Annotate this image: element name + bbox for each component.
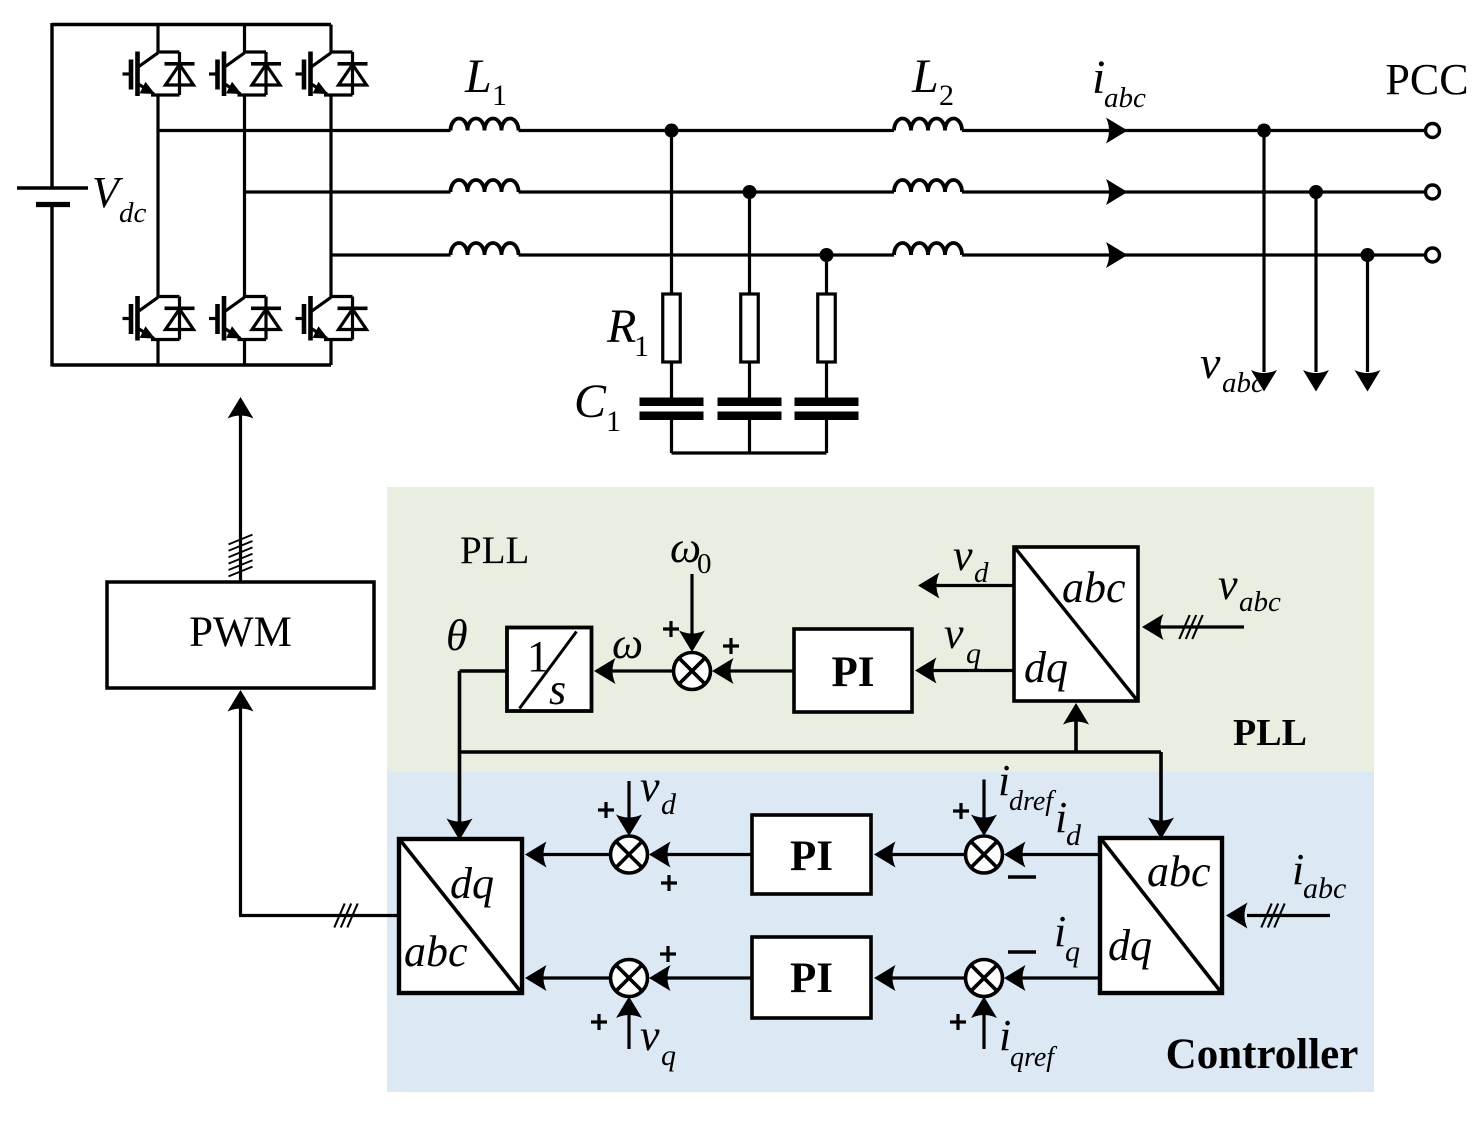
wire: phase leg a upper	[156, 25, 159, 53]
wire: phase leg c upper	[329, 25, 332, 53]
label C1	[574, 375, 621, 438]
wire: vabc sense lead phase a	[1262, 131, 1265, 373]
node: vabc sense junction phase b	[1309, 185, 1323, 199]
capacitor C1 phase b	[718, 398, 782, 421]
arrowhead vd into S2	[616, 815, 642, 837]
label iabc (line current)	[1092, 51, 1146, 114]
wire: phase leg a lower	[156, 339, 159, 365]
wire: S2 output to dq/abc	[528, 853, 612, 856]
wire: phase leg c middle	[329, 95, 332, 298]
resistor R1 phase c	[818, 294, 836, 362]
divider slash of 1/s	[520, 632, 577, 709]
wire: C1 to star point phase c	[825, 420, 828, 453]
arrowhead idref into S3	[971, 815, 997, 837]
transistor Q2 (upper IGBT with antiparallel diode)	[209, 52, 281, 97]
svg-text:dref: dref	[1009, 786, 1056, 817]
wire: idref into S3	[982, 780, 985, 823]
summing junction S5 (iq error)	[966, 960, 1003, 997]
wire: iabc arrow shaft	[1247, 914, 1250, 917]
arrowhead vabc sense phase b	[1303, 370, 1329, 392]
diagonal of dq/abc (controller)	[401, 841, 521, 992]
svg-text:abc: abc	[1147, 847, 1211, 896]
arrowhead PI-q output into S4	[649, 965, 671, 991]
arrowhead into PI-q	[874, 965, 896, 991]
svg-text:1: 1	[634, 330, 649, 363]
svg-text:q: q	[1065, 935, 1080, 968]
svg-text:s: s	[549, 665, 566, 714]
summing junction S4 (vq feed-forward)	[611, 960, 648, 997]
wire: phase leg c lower	[329, 339, 332, 365]
arrowhead omega0 into S1	[679, 631, 705, 653]
bus-width hash on gate signal wire	[229, 535, 253, 577]
sign + (PI-d into S2)	[661, 875, 677, 891]
label vd (feed-forward)	[640, 762, 677, 821]
sign - (iq into S5)	[1008, 950, 1036, 954]
label iq	[1054, 907, 1080, 968]
inductor L1 phase b	[451, 180, 519, 192]
sign + (vq into S4)	[591, 1014, 607, 1030]
svg-text:abc: abc	[1222, 367, 1264, 399]
arrowhead into PWM bottom	[228, 690, 254, 712]
inductor L1 phase c	[451, 243, 519, 255]
svg-text:1: 1	[606, 405, 621, 438]
wire: vabc input to PLL transform	[1146, 625, 1244, 628]
wire: PI-q output to S4	[652, 976, 752, 979]
label R1	[606, 300, 649, 363]
capacitor C1 phase c	[795, 398, 859, 421]
label iabc (controller input)	[1292, 845, 1346, 905]
wire: phase c line, L2 to PCC	[962, 253, 1426, 256]
wire: vq feed-forward into S4	[627, 1010, 630, 1049]
wire: S5 output to PI-q	[877, 976, 967, 979]
wire: vabc sense lead phase b	[1314, 192, 1317, 372]
wire: phase b line, L2 to PCC	[962, 190, 1426, 193]
summing junction S2 (vd feed-forward)	[611, 836, 648, 873]
svg-text:d: d	[661, 788, 677, 821]
wire: iqref into S5	[982, 1010, 985, 1049]
label vd (PLL)	[953, 531, 989, 589]
wire: C1 to star point phase a	[670, 420, 673, 453]
block abc/dq transform U-PLL	[1014, 547, 1138, 701]
wire: phase b shunt branch upper	[748, 192, 751, 294]
node: phase a filter tap junction	[665, 124, 679, 138]
svg-text:qref: qref	[1010, 1042, 1057, 1073]
node: vabc sense junction phase c	[1361, 248, 1375, 262]
node: vabc sense junction phase a	[1257, 124, 1271, 138]
svg-text:1: 1	[492, 79, 507, 112]
block PI current controller q-axis	[752, 937, 871, 1018]
wire: phase a line, L1 to L2	[519, 129, 895, 132]
capacitor C1 phase a	[640, 398, 704, 421]
arrowhead PI output into S1	[712, 658, 734, 684]
wire: omega0 into S1	[690, 574, 693, 637]
svg-text:d: d	[1066, 819, 1082, 852]
wire: phase c line, inverter to L1	[331, 253, 451, 256]
svg-text:q: q	[661, 1039, 676, 1072]
wire: phase a line, inverter to L1	[158, 129, 451, 132]
arrowhead vq into S4	[616, 997, 642, 1019]
svg-text:v: v	[1200, 337, 1221, 388]
wire: iq from abc/dq to S5	[1007, 976, 1100, 979]
wire: C1 to star point phase b	[748, 420, 751, 453]
label L2	[911, 50, 954, 112]
wire: theta distribution horizontal	[460, 750, 1162, 754]
arrowhead vabc sense phase c	[1355, 370, 1381, 392]
inductor L2 phase a	[894, 119, 962, 131]
svg-text:ω: ω	[612, 619, 643, 668]
svg-text:abc: abc	[1303, 872, 1346, 905]
svg-text:PCC: PCC	[1385, 55, 1468, 104]
bus-width hash on vabc input	[1179, 615, 1202, 639]
svg-text:q: q	[966, 637, 981, 670]
arrowhead into dq/abc q input	[525, 965, 547, 991]
wire: modulating signals dq/abc to PWM (horizontal)	[239, 914, 399, 917]
label vabc (PLL input)	[1218, 560, 1281, 618]
svg-text:abc: abc	[1104, 82, 1146, 114]
svg-text:L: L	[911, 50, 939, 103]
arrowhead into integrator	[594, 658, 616, 684]
label omega0	[670, 523, 712, 580]
bus-width hash on iabc input	[1261, 904, 1284, 928]
svg-text:dc: dc	[119, 197, 147, 229]
wire: phase leg b lower	[243, 339, 246, 365]
sign + (vd into S2)	[598, 802, 614, 818]
svg-text:v: v	[953, 531, 973, 580]
wire: phase leg b upper	[243, 25, 246, 53]
transistor Q6 (lower IGBT with antiparallel diode)	[296, 296, 368, 341]
label vabc (PCC voltage)	[1200, 337, 1264, 399]
resistor R1 phase b	[741, 294, 759, 362]
svg-text:θ: θ	[446, 611, 468, 660]
block PI current controller d-axis	[752, 815, 871, 894]
diagonal of abc/dq (PLL)	[1016, 549, 1137, 700]
arrowhead into PI-d	[874, 842, 896, 868]
svg-text:PLL: PLL	[460, 529, 529, 572]
wire: R1 to C1 phase c	[825, 362, 828, 398]
arrowhead iq into S5	[1004, 965, 1026, 991]
block dq/abc inverse transform U-ctl1	[399, 839, 522, 993]
inductor L2 phase b	[894, 180, 962, 192]
battery Vdc negative plate	[36, 202, 70, 207]
arrowhead vq into PI	[915, 658, 937, 684]
wire: PI-d output to S2	[652, 853, 752, 856]
terminal PCC phase a	[1426, 124, 1440, 138]
wire: theta vertical down to dq/abc	[458, 671, 462, 825]
arrowhead theta into dq/abc	[447, 819, 473, 841]
svg-text:dq: dq	[1024, 643, 1068, 692]
transistor Q3 (upper IGBT with antiparallel diode)	[296, 52, 368, 97]
sign - (id into S3)	[1008, 875, 1036, 879]
wire: S3 output to PI-d	[877, 853, 967, 856]
svg-text:dq: dq	[450, 859, 494, 908]
terminal PCC phase c	[1426, 248, 1440, 262]
transistor Q5 (lower IGBT with antiparallel diode)	[209, 296, 281, 341]
wire: phase leg b middle	[243, 95, 246, 298]
sign + (PI input to S1)	[723, 638, 739, 654]
wire: PI output to S1	[715, 669, 794, 672]
wire: vd feed-forward into S2	[627, 781, 630, 822]
inductor L2 phase c	[894, 243, 962, 255]
label L1	[464, 50, 507, 112]
svg-text:PI: PI	[790, 833, 833, 880]
sign + (iqref into S5)	[950, 1014, 966, 1030]
svg-text:0: 0	[697, 548, 712, 580]
diagonal of abc/dq (controller)	[1102, 840, 1221, 992]
terminal PCC phase b	[1426, 185, 1440, 199]
wire: DC bus bottom rail	[52, 363, 331, 366]
wire: phase a line, L2 to PCC	[962, 129, 1426, 132]
Controller region background	[387, 772, 1374, 1092]
svg-text:C: C	[574, 375, 607, 428]
wire: R1 to C1 phase a	[670, 362, 673, 398]
resistor R1 phase a	[663, 294, 681, 362]
svg-text:R: R	[606, 300, 636, 353]
svg-text:v: v	[944, 609, 964, 658]
wire: modulating signals dq/abc to PWM (vertical)	[239, 707, 242, 916]
inductor L1 phase a	[451, 119, 519, 131]
svg-text:PI: PI	[790, 955, 833, 1002]
label id	[1055, 793, 1082, 852]
summing junction S1 (PLL)	[674, 653, 711, 690]
svg-text:abc: abc	[1062, 563, 1126, 612]
label idref	[998, 756, 1056, 817]
battery Vdc positive plate	[17, 186, 88, 190]
wire: theta branch up into PLL transform	[1074, 716, 1078, 752]
wire: DC source positive lead	[50, 23, 53, 188]
svg-text:PLL: PLL	[1233, 712, 1307, 754]
svg-text:dq: dq	[1108, 921, 1152, 970]
wire: filter star-point rail	[672, 451, 827, 454]
svg-text:v: v	[1218, 560, 1238, 609]
wire: DC bus top rail	[52, 23, 331, 26]
wire: id from abc/dq to S3	[1007, 853, 1100, 856]
svg-text:Controller: Controller	[1166, 1031, 1359, 1078]
node: phase c filter tap junction	[820, 248, 834, 262]
arrowhead theta into PLL transform bottom	[1063, 703, 1089, 725]
arrowhead iabc direction phase a	[1106, 118, 1128, 144]
wire: phase a shunt branch upper	[670, 131, 673, 295]
sign + (PI-q into S4)	[660, 946, 676, 962]
arrowhead vd output	[918, 573, 940, 599]
block PI (PLL loop filter)	[794, 629, 912, 712]
label Vdc	[92, 168, 147, 229]
wire: phase c line, L1 to L2	[519, 253, 895, 256]
arrowhead into dq/abc d input	[525, 842, 547, 868]
svg-text:PWM: PWM	[189, 609, 292, 656]
arrowhead iabc direction phase b	[1106, 179, 1128, 205]
summing junction S3 (id error)	[966, 836, 1003, 873]
arrowhead gate signals into inverter	[228, 397, 254, 419]
block abc/dq transform U-ctl2	[1100, 838, 1222, 993]
svg-text:2: 2	[939, 79, 954, 112]
svg-text:L: L	[464, 50, 492, 103]
svg-text:v: v	[640, 762, 660, 811]
arrowhead iabc direction phase c	[1106, 242, 1128, 268]
wire: vq from abc/dq to PI	[918, 669, 1014, 672]
block PWM	[107, 582, 374, 688]
sign + (omega0 input)	[663, 621, 679, 637]
wire: R1 to C1 phase b	[748, 362, 751, 398]
wire: dq/abc output to PWM	[396, 914, 399, 917]
label vq (PLL)	[944, 609, 981, 670]
wire: S4 output to dq/abc	[528, 976, 612, 979]
wire: phase b line, L1 to L2	[519, 190, 895, 193]
wire: PWM gate signals to inverter	[239, 414, 242, 582]
svg-text:PI: PI	[832, 649, 875, 696]
label vq (feed-forward)	[640, 1011, 676, 1072]
wire: S1 output to integrator	[597, 669, 674, 672]
node: phase b filter tap junction	[743, 185, 757, 199]
arrowhead theta into abc/dq controller top	[1148, 818, 1174, 840]
arrowhead iabc into controller transform	[1226, 903, 1248, 929]
sign + (idref into S3)	[953, 803, 969, 819]
arrowhead id into S3	[1004, 842, 1026, 868]
arrowhead vabc sense phase a	[1251, 370, 1277, 392]
wire: iabc input to controller transform	[1250, 914, 1330, 917]
block 1/s integrator U-int	[507, 628, 592, 712]
arrowhead vabc into PLL transform	[1142, 614, 1164, 640]
transistor Q4 (lower IGBT with antiparallel diode)	[123, 296, 195, 341]
wire: phase leg a middle	[156, 95, 159, 298]
svg-text:v: v	[640, 1011, 660, 1060]
wire: theta branch down to abc/dq (controller)	[1159, 752, 1163, 824]
wire: DC source negative lead	[50, 205, 53, 367]
wire: vabc sense lead phase c	[1366, 255, 1369, 372]
svg-text:abc: abc	[1239, 586, 1281, 618]
PLL region background	[387, 487, 1374, 772]
transistor Q1 (upper IGBT with antiparallel diode)	[123, 52, 195, 97]
wire: theta output from integrator	[460, 669, 509, 673]
svg-text:d: d	[974, 557, 989, 589]
label iqref	[999, 1011, 1057, 1073]
wire: vd output from abc/dq	[921, 584, 1014, 587]
wire: phase b line, inverter to L1	[245, 190, 451, 193]
svg-text:abc: abc	[404, 927, 468, 976]
arrowhead iqref into S5	[971, 997, 997, 1019]
wire: phase c shunt branch upper	[825, 255, 828, 294]
arrowhead PI-d output into S2	[649, 842, 671, 868]
bus-width hash on modulating signal wire	[334, 904, 357, 928]
